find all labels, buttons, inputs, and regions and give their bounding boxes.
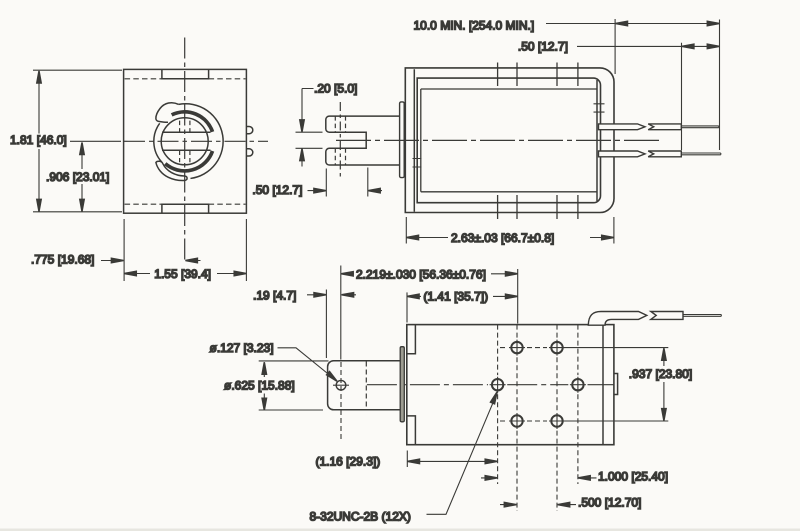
svg-text:8-32UNC-2B (12X): 8-32UNC-2B (12X) [310, 510, 411, 524]
side coil edge ticks left [413, 159, 422, 168]
front thick arc lower [165, 151, 212, 171]
svg-text:2.63±.03 [66.7±0.8]: 2.63±.03 [66.7±0.8] [451, 231, 554, 245]
bottom plunger hole cross [333, 384, 349, 386]
front lower-left crescent tab [156, 161, 187, 180]
bottom tapped holes [492, 342, 584, 427]
dim 2.63 line [407, 237, 614, 239]
dim 1.55 extension lines [124, 219, 246, 281]
svg-text:2.219±.030 [56.36±0.76]: 2.219±.030 [56.36±0.76] [356, 267, 486, 281]
dim 1.41 extension line [406, 292, 408, 322]
side plunger hole center line [339, 102, 341, 177]
front upper-left tab ear [156, 103, 179, 123]
DIM 8-32UNC leader [427, 396, 496, 515]
dim .906 line [81, 143, 83, 212]
side plunger fork [326, 116, 400, 165]
side plunger hole hidden lines [335, 116, 345, 165]
front thick arc upper [172, 112, 213, 132]
dim .19 extension line [307, 290, 356, 359]
bottom right tab [614, 374, 618, 395]
dim .775 arrows [101, 260, 201, 262]
bottom hole column hidden lines [498, 325, 578, 511]
dim 2.219 line [341, 273, 518, 275]
dim 2.63 extension lines [406, 217, 614, 244]
dim 1.16 extension line [406, 451, 408, 468]
side wire end lower [681, 153, 721, 155]
svg-text:.937 [23.80]: .937 [23.80] [629, 367, 692, 381]
bottom plunger [328, 361, 401, 410]
front hole hidden lines [180, 121, 190, 163]
dim .50 slot extension lines [308, 168, 383, 197]
dim 1.000 arrows [481, 477, 597, 479]
bottom slot end hidden line [365, 362, 367, 410]
front terminal bump upper [247, 127, 253, 134]
svg-text:.906 [23.01]: .906 [23.01] [46, 170, 109, 184]
dim 10.0 extension lines [615, 19, 719, 150]
bottom wire bend [588, 312, 647, 326]
bottom body outline [407, 325, 614, 445]
front hidden line top [125, 78, 246, 80]
bottom flange plate [400, 347, 404, 422]
side terminal upper [599, 124, 646, 130]
bottom hole cross marks [490, 340, 586, 429]
svg-text:.50 [12.7]: .50 [12.7] [252, 183, 302, 197]
svg-text:10.0 MIN. [254.0 MIN.]: 10.0 MIN. [254.0 MIN.] [414, 18, 535, 32]
side horizontal center line [336, 139, 659, 141]
side case inner line [413, 69, 415, 211]
svg-text:(1.16 [29.3]): (1.16 [29.3]) [316, 455, 381, 469]
front inner circle [161, 118, 208, 165]
svg-text:.500 [12.70]: .500 [12.70] [578, 495, 641, 509]
front view body outline [124, 69, 247, 213]
bottom case fold notches [407, 325, 416, 445]
svg-text:.20 [5.0]: .20 [5.0] [314, 81, 357, 95]
front horizontal center line [70, 140, 121, 142]
dim .937 line [663, 348, 665, 420]
dim 1.16 line [408, 460, 498, 462]
bottom hole row hidden lines [500, 348, 547, 421]
svg-text:.50 [12.7]: .50 [12.7] [518, 40, 568, 54]
side hole center ticks top [498, 63, 578, 87]
front vertical center line [184, 38, 186, 262]
svg-text:.19 [4.7]: .19 [4.7] [253, 288, 296, 302]
bottom inner right line [602, 325, 604, 444]
bottom row extension lines [565, 348, 669, 421]
dim 2.219 extension lines [341, 266, 518, 360]
dim 10.0 line [546, 23, 719, 25]
side flange plate [400, 102, 405, 178]
side coil inner right line [596, 80, 598, 201]
svg-text:.775 [19.68]: .775 [19.68] [31, 253, 94, 267]
dim .50 top line [577, 45, 719, 47]
front terminal bump lower [247, 149, 253, 156]
side terminal lower [599, 151, 646, 157]
dim 1.81 extension lines [33, 70, 122, 212]
side wire end upper [681, 126, 719, 128]
svg-text:1.000 [25.40]: 1.000 [25.40] [598, 470, 668, 484]
front bottom tab [162, 204, 209, 213]
dim .625 extension lines [259, 361, 329, 410]
svg-text:1.81 [46.0]: 1.81 [46.0] [10, 133, 67, 147]
dim 1.55 line [124, 273, 246, 275]
dim 2.219 hole center hidden line [340, 362, 342, 442]
front slot lines [162, 132, 211, 150]
side coil edge ticks right [594, 104, 605, 112]
front hidden line bottom [125, 203, 246, 205]
bottom center line [367, 384, 614, 386]
side body outer case [405, 68, 614, 213]
side winding lines [421, 89, 597, 192]
front top tab [162, 70, 209, 79]
svg-text:ø.127 [3.23]: ø.127 [3.23] [210, 341, 274, 355]
dim .625 line [263, 362, 265, 410]
side wire break upper [648, 124, 681, 130]
dim 1.41 line [407, 295, 517, 297]
svg-text:1.55 [39.4]: 1.55 [39.4] [154, 267, 211, 281]
svg-text:ø.625 [15.88]: ø.625 [15.88] [224, 379, 295, 393]
dim .20 extension lines [296, 89, 323, 167]
dim 1.81 line [38, 71, 40, 212]
bottom plunger hole [336, 380, 346, 390]
bottom wire end [683, 315, 721, 317]
DIM dia .127 leader [278, 348, 336, 380]
side wire break lower [648, 151, 681, 157]
side coil outline [417, 78, 600, 203]
side hole center ticks bottom [498, 195, 578, 219]
bottom wire break [651, 312, 683, 320]
dim .500 arrows [500, 504, 576, 506]
front outer circle arc [179, 104, 223, 179]
svg-text:(1.41 [35.7]): (1.41 [35.7]) [423, 290, 488, 304]
front left arc [154, 123, 162, 162]
